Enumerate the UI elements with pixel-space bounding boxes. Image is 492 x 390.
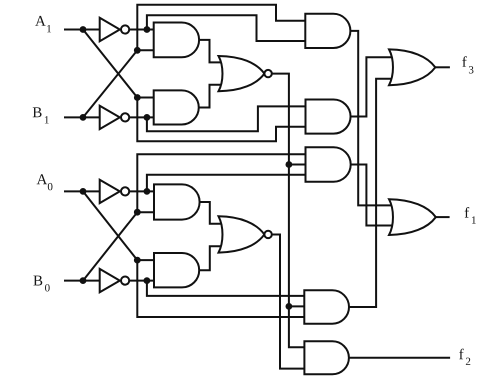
wire NOT2 output B1' [129, 116, 158, 118]
node A0 junction [80, 188, 87, 195]
wire AND-M1 output up to OR-f3 top input [350, 57, 394, 116]
inverter NOT2 (B1) [100, 106, 130, 129]
nor-gate NOR1 (XNOR of bit1) [219, 56, 272, 91]
wire AND-B2 output to f2 [349, 357, 450, 359]
wire A0' up to AND-M2 bottom input [147, 175, 310, 192]
and-gate AND2 (A1 B1') [154, 90, 199, 124]
label f2 [459, 349, 470, 365]
label A1 [35, 16, 51, 32]
wire A0 input [64, 190, 101, 192]
wire B1 diagonal to AND1 [83, 50, 137, 117]
node XNOR1 to AND-B1 junction [286, 303, 293, 310]
wire OR-f3 output [435, 66, 450, 68]
and-gate AND1 (A1' B1) [154, 23, 199, 58]
wire AND-B1 output up to OR-f3 bottom input [349, 79, 394, 307]
node A1 to AND2 junction [134, 94, 141, 101]
node B0 to AND3 junction [134, 209, 141, 216]
inverter NOT4 (B0) [100, 269, 130, 292]
wire B0 up to AND-M2 top input [137, 154, 309, 212]
wire A1 down-and-over to AND-M1 bottom input [137, 98, 309, 142]
node A0 to AND4 junction [134, 257, 141, 264]
wire AND4 output to NOR2 bottom input [199, 246, 226, 270]
wire A1 diagonal to AND2 [83, 30, 137, 98]
wire B0 input [64, 280, 101, 282]
and-gate AND-B2 (XNOR1 XNOR0 for f2) [304, 341, 349, 374]
wire NOT1 output A1' [129, 29, 158, 31]
or-gate OR-f1 [389, 199, 436, 235]
wire B1 up-and-over to AND-T top input [137, 5, 309, 51]
wire B1 stub to AND1 lower input [137, 49, 157, 51]
wire NOT3 output A0' [129, 190, 158, 192]
wire B1 input [64, 116, 101, 118]
wire NOR1 branch to AND-M2 middle input [289, 164, 310, 166]
wire NOR2 output down to AND-B2 bottom input [272, 234, 309, 368]
wire A1' up-and-over to AND-T bottom input [147, 15, 309, 41]
and-gate AND3 (A0' B0) [154, 184, 200, 219]
wire A1 input [64, 29, 101, 31]
wire B0 stub to AND3 lower input [137, 211, 158, 213]
wire AND3 output to NOR2 top input [199, 202, 226, 224]
label f3 [462, 56, 473, 73]
inverter NOT3 (A0) [100, 180, 130, 203]
node A0' junction [144, 188, 151, 195]
wire AND1 output to NOR1 top input [199, 40, 226, 63]
node B0' junction [144, 277, 151, 284]
wire B0' down to AND-B1 top input [147, 281, 308, 296]
node B1' junction [144, 114, 151, 121]
label f1 [465, 207, 476, 224]
wire B0 diagonal to AND3 [83, 212, 137, 280]
wire OR-f1 output [436, 216, 450, 218]
wire A0 stub to AND4 top input [137, 259, 158, 261]
nor-gate NOR2 (XNOR of bit0) [219, 216, 272, 252]
wire AND-T output down to OR-f1 top input [351, 31, 395, 206]
label B0 [33, 276, 49, 292]
node A1' junction [144, 26, 151, 33]
wire AND-M2 output down to OR-f1 bottom input [350, 165, 394, 226]
label A0 [37, 174, 53, 190]
wire B1' down-and-over to AND-M1 top input [147, 106, 310, 131]
or-gate OR-f3 [389, 49, 435, 85]
wire NOR1 branch to AND-B1 middle input [289, 305, 308, 307]
inverter NOT1 (A1) [100, 18, 130, 41]
wire NOR1 output down to AND-B2 top input [272, 74, 309, 348]
wire NOT4 output B0' [129, 280, 158, 282]
and-gate AND-T (A1' B1 term) [305, 14, 350, 48]
node B1 to AND1 junction [134, 47, 141, 54]
and-gate AND4 (A0 B0') [154, 253, 199, 287]
wire A0 down to AND-B1 bottom input [137, 260, 308, 317]
node B1 junction [80, 114, 87, 121]
wire AND2 output to NOR1 bottom input [199, 85, 226, 108]
and-gate AND-M2 (B0 XNOR1 A0' term) [306, 147, 351, 181]
node XNOR1 to AND-M2 junction [286, 161, 293, 168]
label B1 [33, 107, 49, 123]
wire A1 stub to AND2 top input [137, 97, 157, 99]
node A1 junction [80, 26, 87, 33]
wire A0 diagonal to AND4 [83, 191, 137, 260]
and-gate AND-B1 (B0' XNOR1 A0 term) [304, 290, 349, 323]
node B0 junction [80, 277, 87, 284]
and-gate AND-M1 (A1 B1' term) [306, 100, 351, 134]
